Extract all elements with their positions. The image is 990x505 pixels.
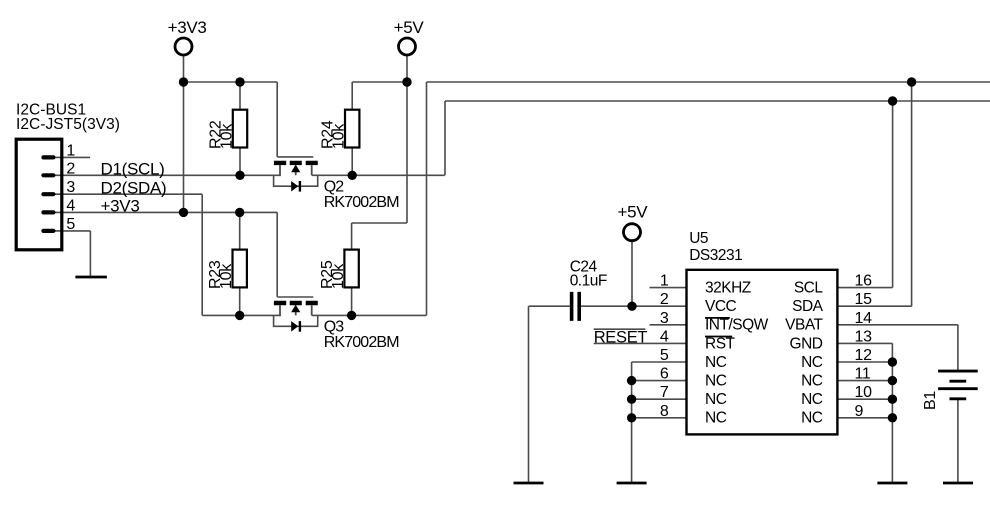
svg-text:5: 5 — [660, 347, 669, 364]
svg-text:RK7002BM: RK7002BM — [324, 194, 400, 211]
svg-text:D1(SCL): D1(SCL) — [101, 159, 165, 178]
svg-text:8: 8 — [660, 403, 669, 420]
svg-text:RK7002BM: RK7002BM — [324, 334, 400, 351]
svg-text:RESET: RESET — [594, 329, 648, 347]
svg-text:VCC: VCC — [705, 298, 737, 315]
svg-text:14: 14 — [855, 310, 873, 327]
svg-text:32KHZ: 32KHZ — [705, 280, 751, 297]
svg-text:I2C-JST5(3V3): I2C-JST5(3V3) — [16, 116, 120, 133]
svg-text:+5V: +5V — [394, 18, 425, 37]
svg-text:DS3231: DS3231 — [689, 247, 742, 264]
svg-text:NC: NC — [801, 354, 823, 371]
svg-text:1: 1 — [66, 142, 75, 159]
svg-text:12: 12 — [855, 347, 873, 364]
svg-text:10k: 10k — [218, 263, 235, 289]
svg-text:NC: NC — [801, 410, 823, 427]
svg-text:3: 3 — [66, 179, 75, 196]
svg-text:NC: NC — [705, 391, 727, 408]
svg-text:10k: 10k — [330, 263, 347, 289]
svg-text:4: 4 — [66, 197, 75, 214]
svg-text:B1: B1 — [922, 391, 939, 410]
svg-text:NC: NC — [705, 410, 727, 427]
svg-text:Q3: Q3 — [324, 319, 345, 336]
svg-text:10k: 10k — [218, 123, 235, 149]
svg-text:SDA: SDA — [792, 298, 824, 315]
svg-text:5: 5 — [66, 216, 75, 233]
svg-text:NC: NC — [705, 373, 727, 390]
svg-text:2: 2 — [66, 160, 75, 177]
svg-text:13: 13 — [855, 328, 873, 345]
svg-text:VBAT: VBAT — [785, 317, 823, 334]
svg-text:4: 4 — [660, 328, 669, 345]
svg-text:GND: GND — [790, 335, 823, 352]
svg-text:Q2: Q2 — [324, 179, 345, 196]
svg-text:RST: RST — [705, 335, 736, 352]
svg-text:NC: NC — [801, 391, 823, 408]
svg-text:U5: U5 — [689, 230, 708, 247]
svg-text:6: 6 — [660, 366, 669, 383]
svg-text:+3V3: +3V3 — [168, 18, 207, 37]
svg-text:7: 7 — [660, 384, 669, 401]
svg-text:11: 11 — [855, 366, 871, 383]
svg-text:0.1uF: 0.1uF — [570, 272, 607, 289]
svg-text:NC: NC — [801, 373, 823, 390]
svg-text:INT/SQW: INT/SQW — [705, 317, 769, 334]
svg-text:10: 10 — [855, 384, 873, 401]
svg-text:16: 16 — [855, 273, 873, 290]
svg-text:10k: 10k — [331, 123, 348, 149]
svg-text:15: 15 — [855, 291, 873, 308]
svg-text:NC: NC — [705, 354, 727, 371]
svg-text:SCL: SCL — [794, 280, 824, 297]
svg-text:9: 9 — [855, 403, 864, 420]
svg-text:+5V: +5V — [618, 203, 649, 222]
svg-text:1: 1 — [660, 273, 669, 290]
svg-text:2: 2 — [660, 291, 669, 308]
svg-text:D2(SDA): D2(SDA) — [101, 178, 167, 197]
svg-text:+3V3: +3V3 — [101, 197, 140, 216]
svg-text:3: 3 — [660, 310, 669, 327]
